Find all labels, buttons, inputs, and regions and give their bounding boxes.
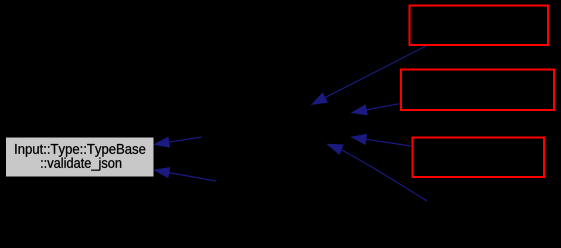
node: Input::Type::TypeBase::validate_json (current, grey)	[6, 137, 155, 177]
node: red box 3 (bottom right, truncated caller)	[413, 138, 545, 178]
label line 1: "Input::Type::TypeBase"	[15, 144, 145, 157]
node: red box 1 (top right, truncated caller)	[410, 6, 549, 46]
edge: hidden middle node 2 -> validate_json (lower arrow into grey box)	[155, 168, 217, 181]
edge: red box 3 -> hidden middle node 1	[352, 134, 411, 146]
edge: red box 2 -> hidden middle node 1	[352, 104, 400, 115]
edge: hidden middle node 1 -> validate_json (upper arrow into grey box)	[155, 137, 203, 147]
edge: red box 1 -> hidden middle node 1 (long diagonal arrow)	[312, 46, 426, 104]
label line 2: "::validate_json"	[41, 158, 121, 171]
edge: hidden bottom node -> hidden middle node 1 (curved arrow)	[328, 144, 427, 201]
node: red box 2 (middle right, truncated caller)	[401, 70, 554, 111]
